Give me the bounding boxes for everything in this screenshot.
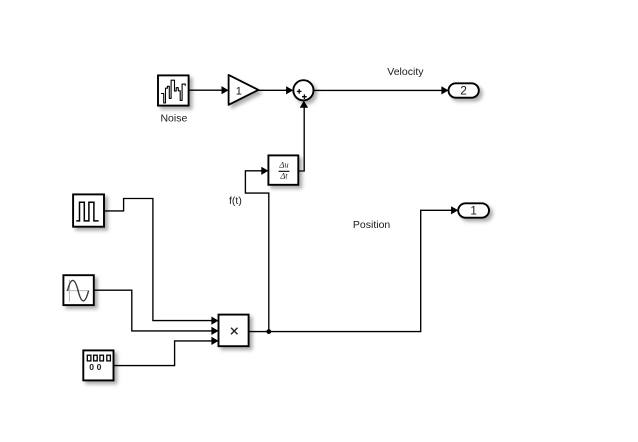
pulse generator block [73, 194, 104, 226]
output port 2 [449, 83, 479, 97]
block Noise (Band-Limited White Noise) [158, 75, 189, 105]
svg-text:1: 1 [470, 204, 477, 218]
output port 1 [458, 203, 489, 217]
svg-text:Position: Position [353, 219, 391, 231]
svg-text:0: 0 [89, 362, 94, 372]
product block [219, 315, 249, 347]
gain block (value 1) [229, 75, 259, 105]
wire Gain to Sum [258, 86, 293, 94]
wire branch junction to Derivative input [245, 167, 268, 332]
wire Sine Wave to Product input 2 [94, 290, 219, 335]
wire Pulse Generator to Product input 1 [104, 199, 219, 325]
digital clock block [83, 350, 113, 380]
svg-text:Δt: Δt [279, 171, 288, 181]
svg-text:1: 1 [236, 85, 242, 97]
wire Digital Clock to Product input 3 [114, 337, 219, 366]
sine wave block [63, 275, 93, 305]
wire Derivative to Sum bottom input [298, 101, 308, 171]
svg-text:Velocity: Velocity [387, 66, 424, 78]
svg-text:Noise: Noise [160, 113, 187, 125]
wire Noise to Gain [189, 86, 229, 94]
svg-text:Δu: Δu [278, 159, 288, 169]
wire Sum to Out2 [314, 86, 449, 94]
svg-text:f(t): f(t) [229, 195, 242, 207]
sum block [293, 80, 313, 100]
derivative block Du/Dt [268, 155, 298, 184]
junction dot [266, 329, 271, 334]
svg-text:0: 0 [97, 362, 102, 372]
wire Product to Out1 [249, 206, 459, 331]
svg-text:2: 2 [460, 84, 467, 98]
